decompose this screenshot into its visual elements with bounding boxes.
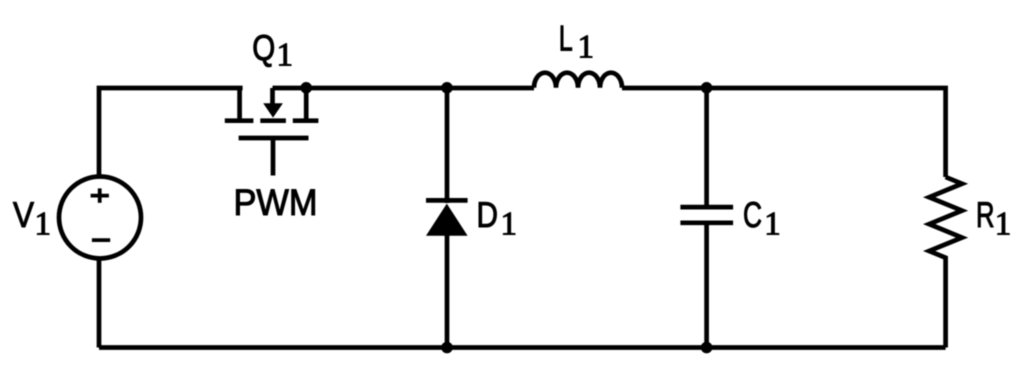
svg-text:1: 1 <box>578 29 595 65</box>
svg-text:1: 1 <box>35 206 52 242</box>
svg-text:C: C <box>743 194 762 235</box>
svg-text:R: R <box>976 194 995 235</box>
svg-text:L: L <box>559 17 573 58</box>
svg-text:1: 1 <box>277 38 294 74</box>
svg-text:Q: Q <box>252 27 275 68</box>
svg-text:V: V <box>13 194 34 235</box>
svg-text:1: 1 <box>995 206 1012 242</box>
svg-text:1: 1 <box>764 207 781 243</box>
svg-text:PWM: PWM <box>234 182 318 223</box>
svg-text:D: D <box>477 194 499 235</box>
svg-text:1: 1 <box>501 206 518 242</box>
